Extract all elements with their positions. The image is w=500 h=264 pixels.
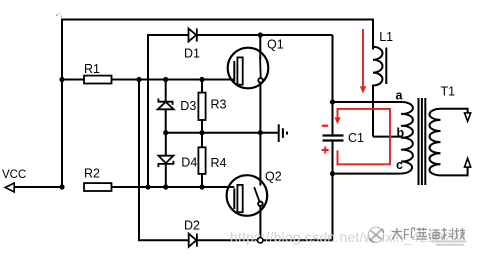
- transistor Q1 (switch symbol): [228, 48, 269, 89]
- svg-text:D2: D2: [184, 219, 200, 233]
- wire Q2 source lead: [259, 206, 261, 238]
- T1 secondary winding: [429, 109, 440, 176]
- svg-text:b: b: [397, 126, 405, 140]
- wire L1 bottom lead: [372, 85, 374, 137]
- wire R1 left lead: [62, 79, 84, 81]
- red minus sign: [322, 125, 328, 127]
- decorative top-left specks: [56, 13, 62, 18]
- T1 primary winding: [401, 102, 413, 174]
- svg-text:L1: L1: [379, 30, 393, 44]
- svg-text:a: a: [396, 89, 404, 103]
- wire node a tap: [333, 101, 402, 103]
- resistor R1: [84, 76, 112, 84]
- wire D3 bottom lead: [165, 109, 167, 132]
- svg-text:R2: R2: [84, 166, 100, 180]
- transistor Q2 (switch symbol): [227, 175, 268, 216]
- wire R3 bottom lead: [201, 120, 203, 133]
- node junction ring at Q2 source / bottom rail: [258, 238, 263, 243]
- 印: [405, 228, 415, 240]
- ground: [279, 124, 287, 142]
- wire R3 top lead: [201, 80, 203, 93]
- inductor L1: [373, 47, 386, 86]
- wire node c tap: [333, 173, 402, 175]
- 技: [454, 228, 465, 240]
- wire node b tap: [373, 136, 401, 138]
- svg-text:Q2: Q2: [265, 169, 282, 183]
- wire D2 cathode to bottom rail: [197, 239, 333, 241]
- 蓝: [417, 228, 428, 240]
- wire mid ground row: [166, 132, 261, 134]
- wire C1 column upper: [332, 35, 334, 134]
- 大: [392, 228, 403, 240]
- capacitor C1: [323, 136, 344, 141]
- wire L1 top lead: [372, 19, 374, 50]
- wire D1 cathode to drain rail: [197, 34, 333, 36]
- diode D1: [189, 28, 197, 41]
- svg-text:R3: R3: [211, 98, 227, 112]
- wire Q1 source to Q2 drain: [259, 83, 261, 186]
- wire Q1 drain lead: [259, 35, 261, 59]
- svg-text:Q1: Q1: [267, 38, 284, 52]
- T1 secondary top terminal: [441, 109, 468, 113]
- wire D3 top lead: [165, 80, 167, 102]
- svg-text:https://blog.csdn.net/weixin_4: https://blog.csdn.net/weixin_4293231: [230, 229, 468, 245]
- wire R4 top lead: [201, 133, 203, 148]
- 海: [429, 229, 440, 240]
- watermark logo circle: [368, 227, 383, 242]
- wire R2 right lead to Q2 gate: [112, 186, 235, 188]
- red tank current loop: [338, 109, 391, 164]
- resistor R4: [198, 147, 205, 174]
- VCC arrow: [5, 183, 14, 192]
- zener D4: [158, 156, 173, 167]
- wire left rail: [61, 20, 63, 188]
- diode D2: [189, 234, 197, 247]
- wire C1 column lower: [332, 142, 334, 241]
- svg-text:D4: D4: [181, 156, 197, 170]
- watermark brand text 大印蓝海科技 (vector strokes): [392, 228, 466, 240]
- svg-text:T1: T1: [441, 85, 456, 99]
- wire cross-coupling gate1 to D2 (x=139): [139, 80, 189, 241]
- wire cross-coupling gate2 to D1 (x=148): [148, 35, 189, 187]
- wire ground tap: [260, 132, 278, 134]
- svg-text:c: c: [396, 158, 403, 172]
- wire VCC feed: [14, 186, 63, 188]
- wire R4 bottom lead: [201, 174, 203, 187]
- svg-text:VCC: VCC: [2, 169, 26, 181]
- svg-text:C1: C1: [348, 131, 364, 145]
- wire R1 right lead to Q1 gate: [112, 79, 235, 81]
- zener D3: [158, 99, 174, 110]
- wire D4 top lead: [165, 133, 167, 156]
- svg-text:D1: D1: [184, 47, 200, 61]
- svg-text:R4: R4: [211, 156, 227, 170]
- red current loop arrow near L1: [362, 29, 364, 87]
- 科: [442, 228, 453, 240]
- watermark tiny tail text lines: [432, 242, 466, 245]
- T1 secondary bottom terminal: [441, 167, 468, 175]
- resistor R3: [198, 93, 205, 120]
- wire top rail: [61, 19, 373, 21]
- T1 core: [418, 98, 420, 185]
- svg-text:D3: D3: [180, 99, 196, 113]
- red plus sign: [322, 147, 329, 154]
- svg-text:R1: R1: [84, 62, 100, 76]
- wire D4 bottom lead: [165, 164, 167, 187]
- resistor R2: [84, 183, 112, 191]
- transformer T1: [401, 98, 471, 185]
